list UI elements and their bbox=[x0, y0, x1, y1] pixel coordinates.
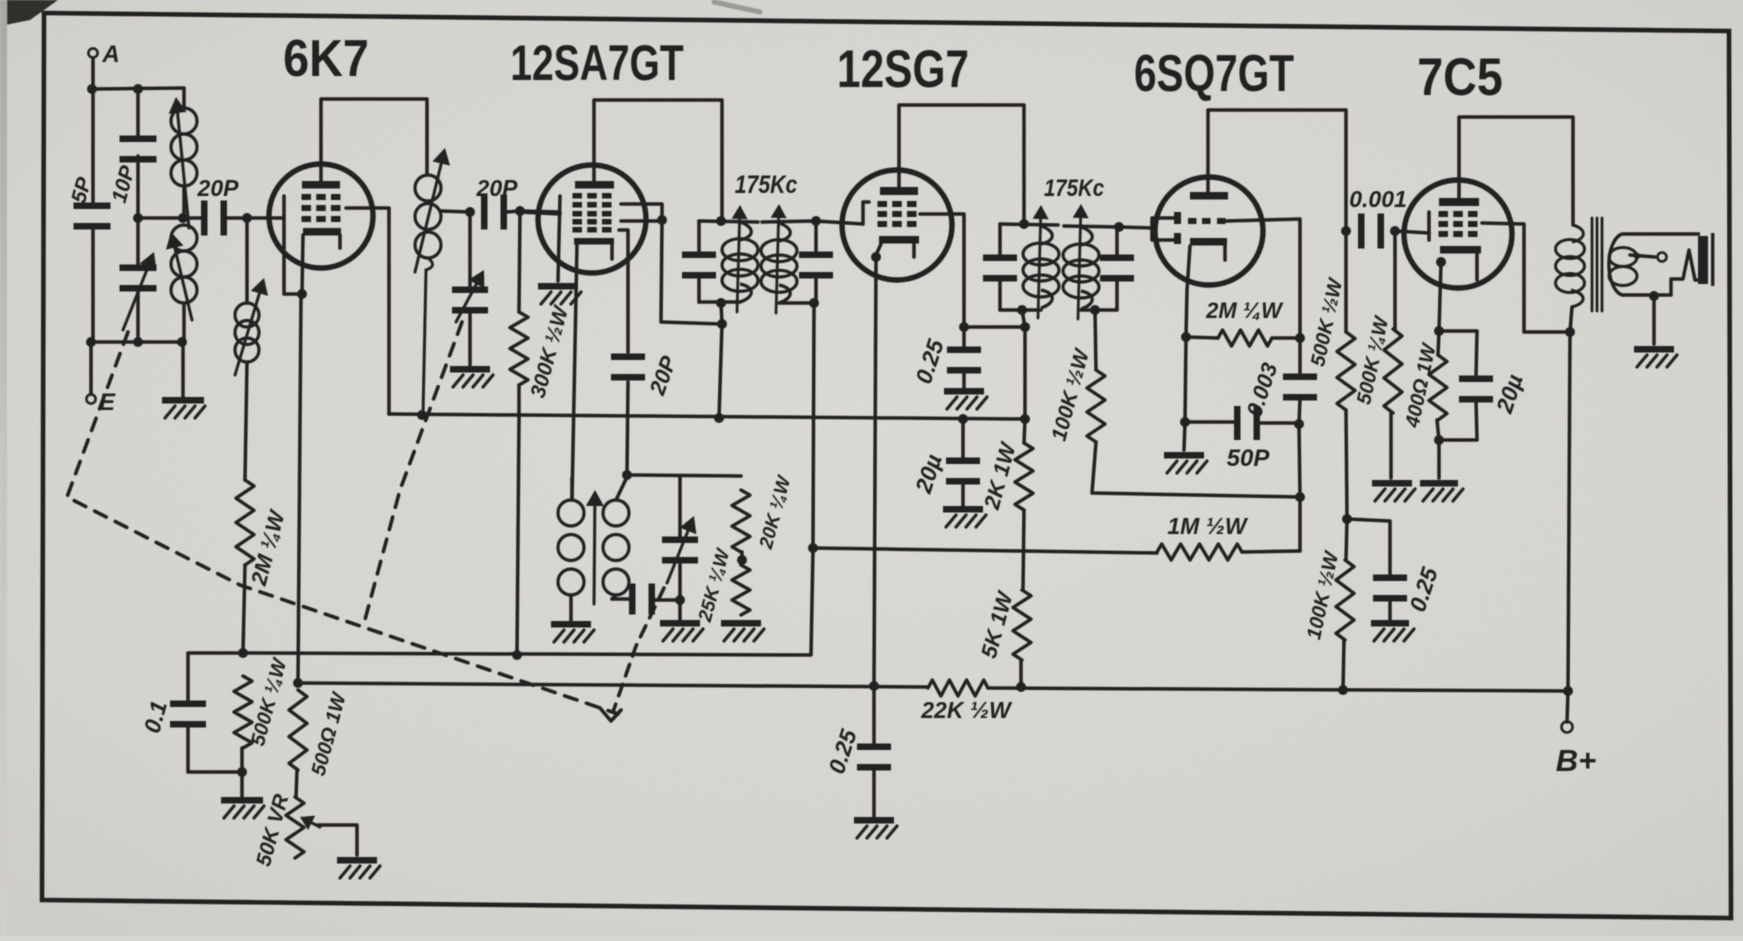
label 175Kc first bbox=[735, 170, 798, 198]
node 20u bus bbox=[958, 414, 968, 424]
node ground-bus left bbox=[86, 337, 96, 347]
tube V5 grids bbox=[1439, 211, 1478, 237]
node L3 bottom bbox=[417, 410, 427, 420]
wire to rf coil L2 bbox=[245, 218, 249, 303]
capacitor 20u cathode 7C5 bbox=[1439, 331, 1528, 440]
tube V4 diode plates bbox=[1174, 212, 1181, 244]
node 0.001 left bbox=[1341, 226, 1351, 236]
wire cap to L4 bbox=[612, 597, 631, 601]
node screen to B+ bbox=[1565, 327, 1575, 337]
wire padder to cap bbox=[653, 598, 680, 602]
label 12SG7 bbox=[837, 41, 969, 100]
tube V2 bar right leg bbox=[610, 244, 614, 259]
node V5 cathode net bbox=[1434, 326, 1444, 336]
wire C1a bottom bbox=[136, 287, 140, 342]
dashed tuning link right bbox=[363, 322, 462, 627]
resistor 20K 1/4W bbox=[732, 472, 796, 552]
tube V3 plate bbox=[880, 187, 918, 195]
node L1 bottom bbox=[177, 337, 187, 347]
wire V2 osc grid stub bbox=[619, 230, 628, 257]
wire IF2 pri bottom bbox=[1000, 308, 1041, 312]
tube V4 diode bracket bbox=[1152, 218, 1174, 240]
wire V2 plate riser bbox=[594, 100, 722, 221]
node speaker return bbox=[1649, 291, 1659, 301]
resistor 400ohm 1W bbox=[1401, 331, 1447, 440]
capacitor IF2 pri bbox=[983, 224, 1017, 310]
dashed link padder bbox=[613, 588, 664, 712]
node V4 cathode bbox=[1181, 332, 1191, 342]
node avc bus left bbox=[238, 648, 248, 658]
node 500K bottom bbox=[237, 767, 247, 777]
resistor 2K 1W bbox=[979, 419, 1033, 513]
ground padder bbox=[660, 620, 703, 641]
tube V2 screen stubs bbox=[621, 204, 662, 221]
tube V1 6K7 envelope bbox=[269, 164, 373, 268]
wire A to junction bbox=[91, 58, 95, 89]
wire V2 grid entry bbox=[520, 212, 560, 214]
capacitor 0.25 screen bbox=[910, 327, 981, 388]
tube V4 cathode bbox=[1190, 238, 1227, 260]
wiper arrow 50K bbox=[300, 816, 357, 855]
label 175Kc second bbox=[1044, 174, 1105, 201]
node decoupling bbox=[869, 681, 879, 691]
wire to tuning cap C1a bbox=[136, 218, 140, 269]
tube V3 12SG7 envelope bbox=[842, 170, 952, 280]
node 20K 25K bbox=[737, 555, 747, 565]
wire IF1 sec top bbox=[762, 221, 816, 222]
capacitor 0.25 avc bbox=[823, 686, 891, 817]
tube V3 grids bbox=[878, 201, 917, 227]
wire L2 to 2M bbox=[245, 362, 247, 480]
wire V2 grid line bbox=[816, 221, 863, 224]
capacitor 0.25 coupling bbox=[1347, 519, 1443, 620]
wire L1 secondary bottom bbox=[182, 303, 186, 342]
ground 0.25 avc bbox=[854, 817, 897, 838]
tube V2 plate bbox=[575, 181, 614, 189]
resistor 2M 1/4W avc bbox=[236, 480, 290, 589]
capacitor 10P bbox=[108, 136, 157, 206]
output transformer primary bbox=[1556, 225, 1585, 307]
wire 500K to node bbox=[240, 748, 244, 772]
wire V4 grid out bbox=[1226, 219, 1300, 338]
wire IF2 sec top bbox=[1064, 226, 1119, 227]
wire IF1 screen drop bbox=[719, 324, 722, 418]
wire antenna top bbox=[92, 88, 184, 108]
wire padder bottom bbox=[678, 559, 682, 600]
capacitor 20u cathode bbox=[910, 419, 980, 506]
tube V1 cathode leg bbox=[302, 235, 303, 294]
node IF1 pri top bbox=[716, 216, 726, 226]
resistor 300K 1/2W bbox=[510, 211, 573, 417]
wire screen rail bbox=[964, 325, 1025, 329]
tube V4 plate bbox=[1190, 192, 1228, 200]
ground V5 cathode bbox=[1420, 480, 1463, 501]
wire 2M to avc bus bbox=[243, 565, 245, 653]
wire 2M left bbox=[1186, 337, 1218, 338]
ground V4 cathode bbox=[1164, 452, 1207, 473]
node mixer grid bbox=[515, 206, 525, 216]
arrow IF2 sec core bbox=[1073, 204, 1089, 319]
node osc grid bbox=[622, 470, 632, 480]
wire L3 tap to 20P bbox=[441, 211, 470, 212]
ground 20u bbox=[943, 506, 986, 527]
terminal E bbox=[86, 389, 116, 416]
node IF1 sec top bbox=[811, 216, 821, 226]
wire V4 cathode ground bbox=[1184, 422, 1185, 450]
wire padder ground bbox=[678, 600, 682, 620]
variable capacitor C1a bbox=[120, 252, 157, 330]
wire to ground bbox=[240, 772, 244, 797]
wire 2M right bbox=[1272, 336, 1300, 340]
node V5 cathode bbox=[1436, 257, 1446, 267]
tube V5 7C5 envelope bbox=[1404, 180, 1512, 288]
tube V2 grids bbox=[573, 193, 612, 233]
capacitor 50P bbox=[1185, 406, 1299, 472]
node volume junction bbox=[1342, 514, 1352, 524]
ground speaker bbox=[1634, 346, 1677, 367]
wire IF2 pri top bbox=[1000, 224, 1058, 225]
resistor 100K 1/2W avc bbox=[1048, 310, 1300, 497]
wire divider mid bbox=[1023, 510, 1024, 590]
capacitor 20P mixer grid bbox=[476, 175, 519, 230]
tube V5 plate bbox=[1439, 198, 1479, 206]
node IF2 pri bottom bbox=[1017, 305, 1027, 315]
capacitor IF1 sec bbox=[799, 221, 833, 303]
wire 20P to 300K node bbox=[506, 211, 520, 212]
arrow L3 core bbox=[415, 148, 450, 272]
wire V2 osc anode leg bbox=[572, 244, 577, 500]
resistor 500ohm 1W bias bbox=[289, 689, 351, 778]
dashed tuning link left bbox=[67, 332, 618, 714]
node screen to IF1 bbox=[717, 319, 727, 329]
resistor 25K 1/4W bbox=[695, 545, 750, 625]
node 50P left bbox=[1180, 417, 1190, 427]
resistor 500K 1/4W bbox=[234, 655, 292, 749]
resistor 22K 1/2W bbox=[920, 680, 1013, 723]
tube V1 grid rail bbox=[284, 196, 301, 294]
capacitor 5P bbox=[67, 174, 110, 230]
node grid line left bbox=[133, 213, 143, 223]
wire IF1 pri to screen rail bbox=[721, 303, 722, 324]
output transformer core bbox=[1592, 218, 1602, 311]
capacitor 0.001 bbox=[1349, 186, 1407, 249]
capacitor 0.1 bbox=[139, 698, 206, 736]
node IF2 sec bottom bbox=[1090, 305, 1100, 315]
node 100K bottom bbox=[1338, 685, 1348, 695]
wire V1 cathode drop bbox=[298, 294, 301, 683]
node tuning cap 2 top bbox=[465, 207, 475, 217]
node avc takeoff bbox=[808, 543, 818, 553]
tube V1 cathode bbox=[303, 228, 341, 248]
label 6SQ7GT bbox=[1134, 44, 1294, 102]
arrow osc core bbox=[586, 490, 604, 604]
osc coil L4 secondary bbox=[603, 477, 629, 599]
wire 10P to grid line bbox=[136, 156, 140, 218]
variable capacitor padder bbox=[662, 516, 698, 583]
tube V1 plate bbox=[302, 181, 340, 189]
screen bus bbox=[389, 414, 1025, 419]
wire speaker ground bbox=[1652, 297, 1656, 344]
wire osc grid drop bbox=[626, 257, 630, 352]
ground 0.25 screen bbox=[944, 388, 987, 409]
wire to 12SA7 grid bbox=[520, 211, 560, 212]
capacitor 20P rf grid bbox=[197, 175, 240, 236]
wire 10P top bbox=[136, 89, 140, 140]
ground 25K bbox=[721, 620, 764, 641]
arrow IF1 sec core bbox=[771, 204, 787, 313]
wire B+ bus right bbox=[988, 688, 1568, 691]
node 10P top bbox=[133, 84, 143, 94]
coil IF2 pri bbox=[1023, 226, 1059, 308]
node IF1 sec bottom bbox=[809, 298, 819, 308]
tube V4 6SQ7GT envelope bbox=[1155, 177, 1263, 285]
node detector junction bbox=[1295, 492, 1305, 502]
potentiometer 50K VR bbox=[252, 791, 304, 869]
wire IF2 pri drop bbox=[1022, 310, 1025, 327]
tube V2 12SA7GT envelope bbox=[538, 165, 646, 273]
ground antenna bbox=[162, 397, 205, 418]
ground 50K wiper bbox=[337, 857, 380, 878]
node V2 screen bbox=[657, 215, 667, 225]
wire V5 cathode drop bbox=[1439, 262, 1441, 331]
wire V5 grid line bbox=[1395, 231, 1429, 233]
terminal B+ bbox=[1556, 722, 1597, 779]
wire avc feed bbox=[1298, 497, 1302, 551]
node C1a bottom bbox=[133, 337, 143, 347]
wire B+ terminal bbox=[1567, 691, 1568, 722]
label 7C5 bbox=[1417, 47, 1503, 106]
output transformer secondary bbox=[1609, 248, 1637, 286]
node 0.001 right bbox=[1390, 226, 1400, 236]
ground avc divider bbox=[221, 797, 264, 818]
ground L4 primary bbox=[551, 621, 594, 642]
wire IF1 pri bottom bbox=[699, 300, 740, 304]
wire IF1 sec bottom bbox=[779, 301, 816, 305]
wire left bottom bus bbox=[91, 340, 183, 344]
rf coil L3 bbox=[415, 175, 441, 415]
speaker cone bbox=[1698, 233, 1714, 286]
tube V3 cathode bbox=[876, 236, 919, 257]
wire B+ bus left bbox=[298, 683, 928, 687]
wire V2 screen drop bbox=[661, 221, 722, 324]
node cathode net bottom bbox=[1434, 435, 1444, 445]
wire C1b to ground bbox=[468, 309, 472, 366]
variable capacitor C1b bbox=[452, 270, 488, 322]
capacitor 20P osc bbox=[611, 352, 682, 399]
dashed link hook bbox=[600, 708, 621, 721]
wire 1M to avc bbox=[813, 548, 1157, 553]
node 300K avc bbox=[512, 650, 522, 660]
resistor 1M 1/2W avc bbox=[1157, 513, 1300, 560]
label 12SA7GT bbox=[510, 34, 683, 91]
coil IF2 sec bbox=[1063, 227, 1099, 309]
wire 20P to node bbox=[226, 216, 247, 220]
wire IF2 sec bottom bbox=[1081, 308, 1117, 312]
wire 0.1 box top bbox=[188, 653, 243, 700]
coil IF1 pri bbox=[722, 222, 758, 302]
capacitor IF2 sec bbox=[1100, 227, 1134, 310]
rf coil L2 bbox=[235, 278, 268, 375]
wire to E bbox=[89, 342, 93, 394]
capacitor 0.003 bbox=[1241, 338, 1317, 424]
node IF2 pri top bbox=[1019, 219, 1029, 229]
tube V5 cathode bbox=[1440, 246, 1481, 280]
wire 0.003 to junction bbox=[1299, 424, 1300, 497]
wire tuning cap 2 drop bbox=[468, 212, 472, 291]
wire V3 cathode drop bbox=[874, 257, 876, 686]
node 50P right bbox=[1294, 419, 1304, 429]
node V1 cathode bbox=[297, 289, 307, 299]
wire V5 plate riser bbox=[1459, 117, 1573, 225]
node B+ takeoff bbox=[1563, 686, 1573, 696]
wire V4 cathode drop bbox=[1186, 246, 1190, 337]
label 6K7 bbox=[283, 30, 369, 88]
ground 0.25 coupling bbox=[1371, 620, 1414, 641]
wire 300K to avc line bbox=[517, 417, 519, 655]
speaker frame bbox=[1609, 234, 1700, 295]
wire IF1 sec drop bbox=[813, 303, 814, 548]
node L1 tap bbox=[178, 213, 188, 223]
node V3 cathode bbox=[871, 252, 881, 262]
tube V4 grid bbox=[1188, 218, 1226, 224]
coil IF1 sec bbox=[761, 223, 797, 303]
wire 500ohm to pot bbox=[296, 770, 297, 797]
node V3 screen rail left bbox=[959, 322, 969, 332]
wire rail to bus bbox=[1023, 327, 1027, 419]
node screen bus C bbox=[714, 413, 724, 423]
tube V5 grid rail bbox=[1427, 212, 1431, 240]
wire avc riser bbox=[243, 548, 813, 655]
wire A column upper bbox=[91, 89, 95, 203]
capacitor IF1 pri bbox=[682, 221, 716, 302]
node 6K7 grid bbox=[242, 213, 252, 223]
resistor 2M 1/4W grid leak bbox=[1205, 298, 1284, 346]
wire V1 screen bbox=[346, 208, 389, 414]
antenna coil L1 secondary bbox=[166, 225, 197, 320]
osc coil L4 primary bbox=[558, 478, 584, 621]
node 5K bottom bbox=[1016, 682, 1026, 692]
node V4 grid return bbox=[1295, 333, 1305, 343]
ground V2 cathode bbox=[538, 283, 581, 304]
speaker terminal bbox=[1630, 253, 1667, 262]
resistor 100K 1/2W grid bbox=[1303, 519, 1354, 690]
capacitor osc series bbox=[629, 584, 655, 615]
wire V5 screen bbox=[1482, 223, 1570, 332]
wire 20P osc to node bbox=[627, 382, 628, 475]
tube V1 grid bbox=[302, 194, 341, 222]
tube V3 grid rail bbox=[863, 202, 869, 224]
wire V3 grid line bbox=[1119, 227, 1152, 228]
wire V3 screen bbox=[920, 214, 964, 327]
wire 50P row bbox=[1185, 337, 1186, 422]
wire A column lower bbox=[91, 229, 95, 342]
wire 5K to bus bbox=[1019, 660, 1023, 687]
arrow IF2 pri core bbox=[1033, 205, 1049, 318]
wire grid line bbox=[138, 216, 203, 220]
resistor 500K 1/4W bbox=[1353, 231, 1402, 478]
node padder bottom bbox=[675, 595, 685, 605]
tube V2 cathode rail bbox=[558, 196, 560, 281]
arrow IF1 pri core bbox=[732, 205, 748, 312]
wire to ground bbox=[181, 342, 185, 397]
wire primary to B+ bbox=[1568, 307, 1572, 691]
node divider top bbox=[1020, 414, 1030, 424]
wire cathode ground bbox=[1437, 440, 1441, 478]
wire osc tank top bbox=[627, 475, 741, 476]
node cathode bus left bbox=[293, 678, 303, 688]
wire node to 6K7 grid bbox=[247, 216, 284, 220]
node antenna junction bbox=[87, 84, 97, 94]
wire V3 plate riser bbox=[899, 105, 1024, 224]
resistor 500K 1/2W bbox=[1307, 231, 1355, 519]
wire 0.1 box bottom bbox=[188, 728, 242, 772]
wire V4 plate riser bbox=[1208, 110, 1346, 231]
wire padder drop bbox=[678, 476, 682, 541]
node screen rail right bbox=[1020, 322, 1030, 332]
wire IF1 pri top bbox=[699, 221, 758, 222]
wire V1 plate riser bbox=[321, 99, 427, 181]
ground 500K bbox=[1372, 480, 1415, 501]
wire L1 link bbox=[182, 186, 186, 218]
resistor 5K 1W bbox=[976, 587, 1031, 661]
antenna coil L1 primary bbox=[169, 97, 197, 228]
node IF2 sec top bbox=[1114, 222, 1124, 232]
terminal A bbox=[88, 41, 119, 68]
ground C1b bbox=[450, 366, 493, 387]
tube V2 bottom bar bbox=[574, 238, 614, 245]
node IF1 pri bottom bbox=[716, 298, 726, 308]
